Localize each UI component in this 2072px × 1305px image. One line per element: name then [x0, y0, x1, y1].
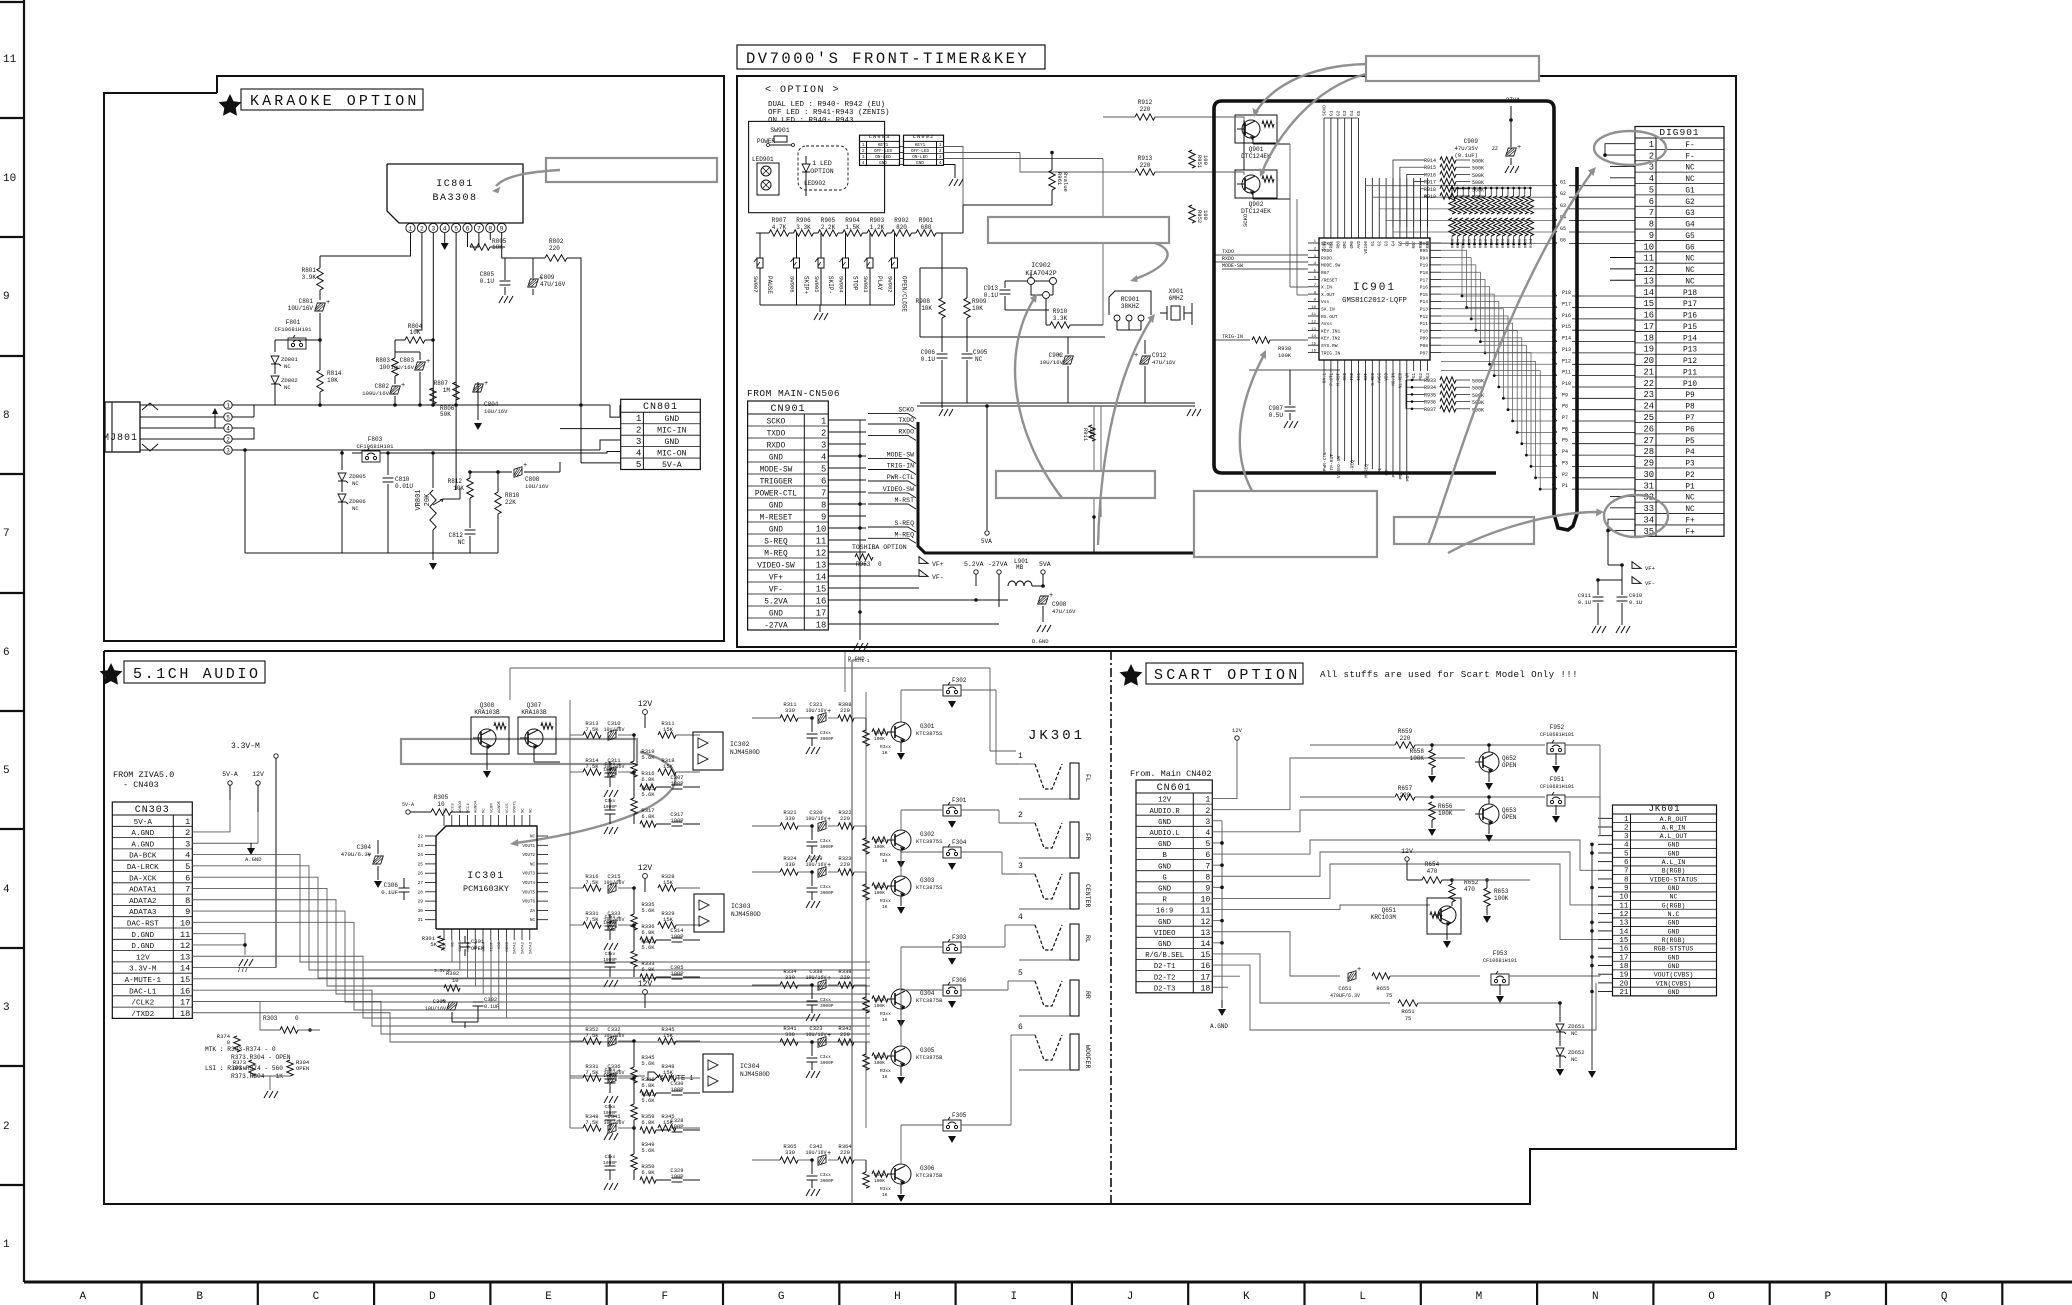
svg-text:CF10681H101: CF10681H101 — [1483, 958, 1517, 964]
svg-text:5V-A: 5V-A — [402, 802, 414, 808]
svg-text:ON-LED: ON-LED — [875, 155, 891, 160]
svg-text:1: 1 — [821, 416, 826, 426]
svg-text:16: 16 — [1619, 946, 1629, 954]
zener ZD652 NC — [1559, 1032, 1561, 1046]
wire pin7 — [478, 233, 480, 247]
svg-text:+: + — [617, 725, 621, 733]
resistor R373 OPEN — [249, 1060, 255, 1076]
svg-text:9: 9 — [821, 512, 826, 522]
svg-text:500K: 500K — [1472, 379, 1484, 385]
svg-text:17: 17 — [1200, 973, 1210, 982]
svg-text:SKIP-: SKIP- — [827, 276, 834, 294]
grey arrow to Q902 — [1262, 74, 1366, 172]
svg-text:SW906: SW906 — [789, 276, 796, 293]
RGB SEL wire — [1212, 954, 1390, 1003]
svg-text:2: 2 — [226, 436, 230, 443]
svg-text:100U/16V: 100U/16V — [362, 390, 389, 397]
svg-text:IC901: IC901 — [1353, 282, 1396, 294]
svg-text:VIDEO-STATUS: VIDEO-STATUS — [1650, 876, 1698, 883]
svg-text:GND: GND — [879, 161, 887, 166]
svg-text:G4: G4 — [1685, 222, 1695, 230]
svg-text:POWER: POWER — [757, 138, 775, 145]
svg-text:G304: G304 — [920, 990, 935, 997]
svg-text:VF+: VF+ — [932, 561, 944, 568]
svg-text:100K: 100K — [874, 736, 885, 742]
svg-text:A.R_IN: A.R_IN — [1662, 824, 1686, 831]
svg-text:F304: F304 — [952, 839, 967, 846]
svg-text:12V: 12V — [638, 980, 653, 989]
svg-text:100K: 100K — [1410, 755, 1425, 762]
capacitor C803 10U/16V — [419, 352, 421, 360]
svg-text:7: 7 — [1205, 862, 1210, 871]
svg-text:5.6K: 5.6K — [641, 754, 655, 761]
svg-text:5VA: 5VA — [981, 538, 992, 545]
svg-text:GND: GND — [1158, 885, 1171, 893]
svg-text:TRIG.IN: TRIG.IN — [1321, 350, 1341, 356]
svg-text:12V: 12V — [252, 771, 264, 778]
svg-text:3900P: 3900P — [820, 736, 834, 742]
svg-text:GND: GND — [916, 161, 924, 166]
resistor R304 OPEN — [287, 1060, 293, 1076]
16:9 wire — [1212, 905, 1430, 910]
IC301 pins bottom — [443, 929, 445, 940]
svg-text:12: 12 — [816, 548, 827, 558]
svg-text:M-REQ: M-REQ — [894, 531, 914, 538]
svg-text:7.5K: 7.5K — [585, 726, 599, 733]
-27VA wire — [828, 623, 999, 625]
svg-text:14: 14 — [1311, 335, 1316, 339]
svg-text:Q307: Q307 — [527, 702, 542, 709]
svg-text:NC: NC — [1571, 1030, 1578, 1037]
svg-text:18: 18 — [180, 1009, 190, 1019]
svg-text:ZD651: ZD651 — [1568, 1023, 1585, 1030]
IC801 pins 1-9 — [406, 223, 415, 232]
svg-text:NC: NC — [284, 384, 291, 391]
svg-text:IC302: IC302 — [730, 741, 750, 748]
RC901 38KHZ resonator — [1109, 291, 1151, 315]
svg-text:1 LED: 1 LED — [812, 160, 832, 167]
svg-text:R3xx: R3xx — [880, 744, 891, 750]
svg-text:100K: 100K — [1494, 895, 1509, 902]
svg-text:7.5K: 7.5K — [585, 1119, 599, 1126]
svg-text:KARAOKE OPTION: KARAOKE OPTION — [250, 93, 419, 110]
C301 OPEN — [460, 942, 471, 944]
A.GND rail — [1221, 821, 1223, 1000]
svg-text:5: 5 — [226, 414, 230, 421]
svg-text:100K: 100K — [874, 1178, 885, 1184]
svg-text:R/G/B.SEL: R/G/B.SEL — [1145, 952, 1184, 960]
svg-text:C805: C805 — [480, 271, 495, 278]
svg-text:R904: R904 — [845, 217, 860, 224]
svg-text:C3xx: C3xx — [820, 838, 831, 844]
svg-text:LED902: LED902 — [804, 180, 826, 187]
svg-text:ZD801: ZD801 — [281, 356, 298, 363]
svg-text:3: 3 — [1205, 818, 1210, 827]
svg-text:M-RESET: M-RESET — [760, 514, 793, 522]
svg-text:47U/35V: 47U/35V — [1455, 145, 1479, 152]
svg-text:NC: NC — [1685, 165, 1695, 173]
grey arrow to IC301 — [516, 752, 675, 843]
svg-text:F-: F- — [1685, 142, 1694, 150]
svg-text:IC902: IC902 — [1031, 262, 1051, 269]
resistor R951 100 — [1189, 150, 1195, 168]
svg-text:R3xx: R3xx — [880, 852, 891, 858]
capacitor C908 47U/16V — [1038, 596, 1049, 604]
svg-text:GND: GND — [1668, 920, 1680, 927]
svg-text:34: 34 — [1643, 515, 1654, 525]
svg-text:10K: 10K — [453, 485, 464, 492]
svg-text:220: 220 — [1400, 735, 1411, 742]
svg-text:27: 27 — [418, 880, 424, 886]
svg-text:P5: P5 — [1562, 438, 1568, 444]
wire pin8 — [489, 233, 491, 240]
svg-text:10: 10 — [1619, 894, 1629, 902]
svg-text:P11: P11 — [1562, 370, 1571, 376]
svg-text:G2: G2 — [1379, 241, 1383, 247]
svg-text:0.1UF: 0.1UF — [484, 1004, 499, 1010]
svg-text:R936: R936 — [1424, 400, 1436, 406]
SCART OPTION title box — [1146, 663, 1303, 684]
svg-text:+: + — [827, 1032, 831, 1040]
svg-text:CENTER: CENTER — [1084, 884, 1091, 908]
svg-text:P6: P6 — [1685, 426, 1695, 434]
svg-text:D.GND: D.GND — [1032, 638, 1049, 645]
svg-text:100P: 100P — [670, 1086, 683, 1093]
wire pin1 down — [320, 233, 411, 256]
svg-text:12: 12 — [180, 941, 190, 951]
svg-text:R937: R937 — [1424, 407, 1436, 413]
svg-text:100P: 100P — [670, 970, 683, 977]
capacitor C808 10U/16V — [514, 467, 522, 478]
svg-text:L: L — [1359, 1291, 1366, 1303]
svg-text:2: 2 — [821, 428, 826, 438]
svg-text:10U/16V: 10U/16V — [805, 708, 826, 714]
svg-text:G3: G3 — [1685, 210, 1695, 218]
svg-text:P4: P4 — [1562, 449, 1568, 455]
svg-text:R659: R659 — [1398, 728, 1413, 735]
svg-text:9: 9 — [3, 291, 10, 303]
svg-text:220: 220 — [840, 815, 850, 822]
svg-text:STOP: STOP — [852, 276, 859, 291]
resistor R807 1M — [453, 382, 459, 400]
svg-text:VOUT(CVBS): VOUT(CVBS) — [1654, 972, 1694, 979]
svg-text:R906: R906 — [796, 217, 811, 224]
Q902 digital transistor — [1235, 170, 1277, 198]
svg-text:R933: R933 — [1424, 378, 1436, 384]
svg-text:GMS81C2012-LQFP: GMS81C2012-LQFP — [1342, 297, 1407, 305]
svg-text:KRA103B: KRA103B — [521, 709, 547, 716]
svg-text:Q308: Q308 — [480, 702, 495, 709]
channel filter rows (stylised) — [570, 734, 583, 736]
wire pin6 down — [467, 233, 469, 247]
svg-text:1: 1 — [1018, 752, 1023, 761]
page frame: left ruler column — [23, 0, 25, 1282]
svg-text:R94: R94 — [1420, 255, 1429, 261]
connector table CN903 — [860, 135, 900, 165]
svg-text:P13: P13 — [1562, 347, 1571, 353]
svg-text:C802: C802 — [375, 383, 390, 390]
svg-text:6.8K: 6.8K — [641, 776, 655, 783]
svg-text:+: + — [401, 382, 405, 390]
svg-text:CF10681H101: CF10681H101 — [1540, 732, 1574, 738]
svg-text:R: R — [1162, 897, 1167, 905]
svg-text:7: 7 — [1624, 868, 1629, 876]
svg-text:P19: P19 — [1420, 263, 1429, 269]
svg-text:+: + — [1134, 352, 1138, 360]
svg-text:220: 220 — [840, 1031, 850, 1038]
svg-text:22K: 22K — [505, 499, 516, 506]
R301 5K — [438, 936, 444, 950]
svg-text:TOSHIBA OPTION: TOSHIBA OPTION — [852, 544, 907, 551]
svg-text:< OPTION >: < OPTION > — [765, 85, 840, 96]
capacitor C809 47U/16V — [532, 258, 534, 278]
svg-text:K: K — [1243, 1291, 1250, 1303]
svg-text:RB1: RB1 — [1330, 241, 1334, 249]
svg-text:100K: 100K — [1438, 810, 1453, 817]
svg-text:1M: 1M — [443, 387, 451, 394]
svg-text:15: 15 — [1311, 342, 1316, 346]
wires from IC901 top-right to network — [1393, 160, 1424, 227]
ground arrow pin4 — [441, 243, 449, 250]
svg-text:CN601: CN601 — [1157, 783, 1192, 794]
svg-text:G301: G301 — [920, 723, 935, 730]
svg-text:NC: NC — [1571, 1056, 1578, 1063]
svg-text:A.R_OUT: A.R_OUT — [1660, 816, 1688, 823]
resistor R909 10K — [966, 268, 968, 298]
variable resistor VR801 20K — [432, 453, 434, 488]
svg-text:P10: P10 — [1420, 328, 1429, 334]
thick signal bracket line — [918, 422, 1196, 553]
svg-text:M-REQ: M-REQ — [764, 550, 788, 558]
svg-text:KTC3875B: KTC3875B — [916, 997, 943, 1004]
svg-text:7: 7 — [1649, 208, 1654, 218]
svg-text:100P: 100P — [670, 933, 683, 940]
junction dots columns — [1451, 243, 1454, 246]
B wire — [1212, 840, 1598, 870]
svg-text:+: + — [617, 1068, 621, 1076]
svg-text:18: 18 — [1643, 333, 1654, 343]
svg-text:AGND5: AGND5 — [498, 800, 502, 813]
svg-text:RB0: RB0 — [1337, 241, 1341, 249]
svg-text:IC801: IC801 — [436, 179, 474, 190]
svg-text:TXDO: TXDO — [767, 430, 786, 438]
svg-text:16: 16 — [1643, 311, 1654, 321]
svg-text:R651: R651 — [1401, 1008, 1415, 1015]
svg-text:220: 220 — [840, 707, 850, 714]
svg-text:+: + — [827, 862, 831, 870]
svg-text:RL: RL — [1084, 935, 1091, 943]
main horizontal bus row 2 — [235, 449, 600, 451]
svg-text:VF+: VF+ — [1645, 565, 1655, 572]
bottom ruler row — [24, 1281, 2072, 1284]
DV7000 section border — [737, 76, 1736, 647]
svg-text:G6: G6 — [1560, 237, 1566, 243]
svg-text:NC: NC — [352, 505, 359, 512]
svg-text:3.3V-M: 3.3V-M — [231, 742, 260, 751]
svg-text:5K: 5K — [430, 941, 437, 948]
svg-text:R814: R814 — [327, 370, 342, 377]
svg-text:680: 680 — [921, 224, 932, 231]
svg-text:NC: NC — [458, 539, 466, 546]
svg-text:AUDIO.R: AUDIO.R — [1150, 808, 1181, 816]
svg-text:25: 25 — [418, 861, 424, 867]
svg-text:KTC3875S: KTC3875S — [916, 730, 943, 737]
resistor R806 50K — [432, 388, 434, 405]
svg-text:DA-BCK: DA-BCK — [129, 853, 157, 861]
svg-text:10K: 10K — [921, 305, 932, 312]
svg-text:PG1: PG1 — [1413, 373, 1417, 381]
svg-text:C912: C912 — [1152, 352, 1167, 359]
svg-text:CN902: CN902 — [913, 133, 935, 140]
svg-text:P14: P14 — [1683, 335, 1697, 343]
svg-text:8: 8 — [1624, 876, 1629, 884]
svg-text:3: 3 — [821, 440, 826, 450]
svg-text:P1: P1 — [1685, 483, 1695, 491]
svg-text:30: 30 — [1643, 470, 1654, 480]
svg-text:P8: P8 — [1562, 404, 1568, 410]
svg-text:P5: P5 — [1405, 476, 1411, 482]
svg-text:R902: R902 — [894, 217, 909, 224]
svg-text:P: P — [1825, 1291, 1832, 1303]
svg-text:+: + — [827, 708, 831, 716]
wire pin5 row — [232, 416, 254, 418]
svg-text:R905: R905 — [821, 217, 836, 224]
5.1CH AUDIO title star — [100, 663, 123, 685]
switch SW903 (PLAY) — [869, 233, 871, 258]
svg-text:F303: F303 — [952, 934, 967, 941]
svg-text:330: 330 — [785, 1149, 795, 1156]
svg-text:15: 15 — [816, 584, 827, 594]
svg-text:13: 13 — [1619, 920, 1629, 928]
svg-text:GND: GND — [1158, 941, 1171, 949]
arrow into jack — [200, 412, 215, 428]
svg-text:- CN403: - CN403 — [123, 780, 159, 790]
svg-text:C342: C342 — [809, 1143, 822, 1150]
capacitor C804 10U/16V — [473, 384, 484, 392]
svg-text:GND: GND — [769, 502, 783, 510]
svg-text:9: 9 — [1624, 885, 1629, 893]
svg-text:C3xx: C3xx — [820, 884, 831, 890]
svg-text:P16: P16 — [1683, 313, 1697, 321]
svg-text:B(RGB): B(RGB) — [1662, 868, 1686, 875]
wires from Q90x to IC901 — [1289, 144, 1291, 287]
svg-text:B: B — [1162, 852, 1167, 860]
svg-text:38KHZ: 38KHZ — [1121, 303, 1140, 310]
zener ZD801 NC — [271, 356, 279, 364]
svg-text:C302: C302 — [484, 996, 497, 1003]
svg-text:25: 25 — [1643, 413, 1654, 423]
svg-text:VCC4: VCC4 — [467, 803, 471, 813]
svg-text:ZZ: ZZ — [1492, 146, 1498, 152]
svg-text:21: 21 — [1619, 989, 1629, 997]
switch SW906 (SKIP+) — [796, 233, 798, 258]
svg-text:6.8K: 6.8K — [641, 966, 655, 973]
svg-text:0.1U: 0.1U — [480, 278, 495, 285]
svg-text:RXDO: RXDO — [898, 428, 914, 435]
svg-text:NC: NC — [530, 836, 536, 840]
svg-text:3: 3 — [1624, 833, 1629, 841]
svg-text:R914: R914 — [1424, 158, 1436, 164]
svg-text:+: + — [326, 299, 330, 307]
svg-text:P7: P7 — [1562, 415, 1568, 421]
svg-text:3: 3 — [3, 1002, 10, 1014]
svg-text:TRIG-IN: TRIG-IN — [1222, 334, 1243, 340]
svg-text:Vss: Vss — [1321, 299, 1330, 305]
svg-text:VIDEO-SW: VIDEO-SW — [883, 486, 914, 493]
svg-text:13: 13 — [1643, 276, 1654, 286]
svg-text:10U/16V: 10U/16V — [805, 1032, 826, 1038]
svg-text:GND: GND — [769, 610, 783, 618]
VF+/VF- below DIG901 — [1607, 531, 1609, 565]
svg-text:GND: GND — [1668, 989, 1680, 996]
svg-text:C911: C911 — [1578, 592, 1592, 599]
svg-text:500K: 500K — [1472, 173, 1484, 179]
svg-text:6: 6 — [1624, 859, 1629, 867]
svg-text:PLAY: PLAY — [876, 276, 883, 291]
svg-text:G1: G1 — [1372, 241, 1376, 247]
bundle stubs up into IC301 bottom pins — [451, 940, 453, 962]
svg-text:10: 10 — [452, 977, 459, 984]
svg-text:P12: P12 — [1683, 358, 1697, 366]
svg-text:M: M — [1476, 1291, 1483, 1303]
svg-text:13: 13 — [1311, 328, 1316, 332]
svg-text:GND: GND — [1668, 928, 1680, 935]
svg-text:VIN(CVBS): VIN(CVBS) — [1656, 980, 1692, 987]
svg-text:RX.OUT: RX.OUT — [1321, 314, 1338, 320]
svg-text:ZD652: ZD652 — [1568, 1049, 1585, 1056]
svg-text:IC303: IC303 — [731, 903, 751, 910]
svg-text:100K: 100K — [1278, 352, 1292, 359]
svg-text:R3xx: R3xx — [880, 1011, 891, 1017]
svg-text:GND: GND — [1668, 842, 1680, 849]
svg-text:R901: R901 — [919, 217, 934, 224]
svg-text:50K: 50K — [440, 411, 451, 418]
svg-text:10U/16V: 10U/16V — [805, 975, 826, 981]
svg-text:KRA103B: KRA103B — [474, 709, 500, 716]
svg-text:17: 17 — [1619, 954, 1628, 962]
svg-text:D2-T3: D2-T3 — [1154, 985, 1176, 993]
svg-text:ZD806: ZD806 — [349, 498, 366, 505]
svg-text:SCKO: SCKO — [1324, 241, 1328, 252]
svg-text:ZA: ZA — [530, 910, 536, 914]
svg-text:DATA2: DATA2 — [522, 941, 526, 954]
svg-text:P9: P9 — [1562, 392, 1568, 398]
svg-text:VOUT6: VOUT6 — [522, 901, 535, 905]
G wire — [1212, 852, 1598, 905]
svg-text:NC: NC — [1685, 495, 1695, 503]
svg-text:3900P: 3900P — [820, 890, 834, 896]
svg-text:P17: P17 — [1420, 277, 1429, 283]
svg-text:KTC3875B: KTC3875B — [916, 1172, 943, 1179]
svg-text:0.1U: 0.1U — [984, 292, 999, 299]
svg-text:+: + — [617, 878, 621, 886]
svg-text:6: 6 — [1649, 197, 1654, 207]
svg-text:Q653: Q653 — [1502, 807, 1517, 814]
svg-text:8: 8 — [821, 500, 826, 510]
resistor R805 10K — [470, 244, 490, 250]
svg-text:6.8K: 6.8K — [641, 929, 655, 936]
svg-text:SW905: SW905 — [813, 276, 820, 293]
svg-text:G5: G5 — [1685, 233, 1695, 241]
svg-text:11: 11 — [3, 54, 17, 66]
svg-text:CN303: CN303 — [135, 805, 170, 816]
svg-text:RGB-STSTUS: RGB-STSTUS — [1654, 946, 1694, 953]
svg-text:AVss: AVss — [1321, 321, 1332, 327]
C303 10U/16V + C302 0.1UF — [447, 1002, 458, 1010]
connector table CN303 — [112, 802, 192, 1018]
svg-text:390: 390 — [1088, 428, 1095, 438]
svg-text:C323: C323 — [809, 1025, 822, 1032]
